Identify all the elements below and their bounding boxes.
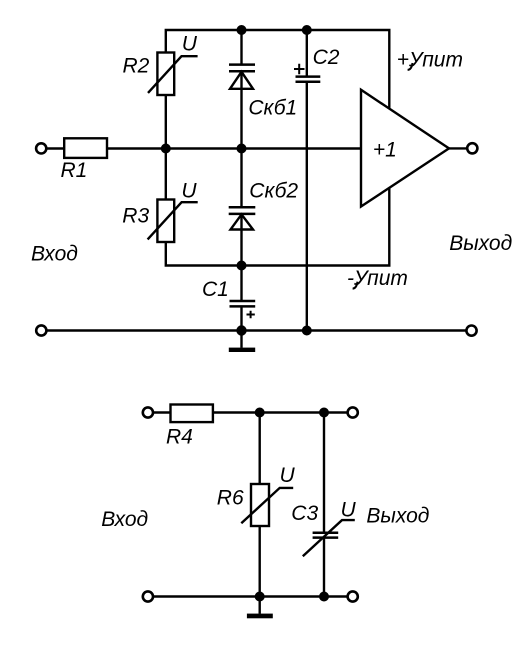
varistor R3 bbox=[148, 200, 198, 243]
svg-text:Вход: Вход bbox=[31, 243, 78, 266]
wire C1 lower segment to bottom rail bbox=[240, 306, 242, 330]
wire op-amp output bbox=[449, 147, 468, 149]
svg-text:Выход: Выход bbox=[366, 504, 429, 527]
wire R6 column bbox=[259, 413, 261, 597]
op-amp U1 buffer triangle bbox=[361, 90, 449, 207]
wire C2 column upper segment bbox=[306, 30, 308, 77]
wire C2 column lower segment to bottom rail bbox=[306, 82, 308, 331]
node junction mid rail at R2/R3 bbox=[161, 144, 171, 154]
svg-text:C3: C3 bbox=[291, 502, 318, 525]
wire C3 column lower segment bbox=[323, 538, 325, 597]
wire top rail bottom circuit bbox=[153, 411, 348, 413]
terminal bottom-right bottom circuit bbox=[348, 591, 358, 601]
node junction bottom rail at C3 bbox=[319, 592, 329, 602]
node junction top rail at C3 bbox=[319, 408, 329, 418]
node junction top rail at Скб1 bbox=[237, 25, 247, 35]
svg-text:U: U bbox=[341, 498, 357, 521]
ground symbol bottom circuit bbox=[247, 597, 273, 619]
varistor R2 bbox=[148, 53, 198, 96]
capacitor C2 bbox=[294, 64, 320, 82]
varicap Скб2 bbox=[229, 207, 256, 229]
svg-text:+Упит: +Упит bbox=[397, 48, 463, 71]
node junction bottom rail at R6/ground bbox=[255, 592, 265, 602]
svg-text:+1: +1 bbox=[373, 139, 397, 162]
svg-text:C2: C2 bbox=[313, 46, 340, 69]
wire Скб2 column upper segment bbox=[240, 149, 242, 208]
svg-text:R4: R4 bbox=[166, 426, 193, 449]
node junction bottom rail at C1/ground bbox=[236, 325, 246, 335]
varistor R6 bbox=[241, 484, 293, 526]
terminal output top-right bottom circuit bbox=[348, 407, 358, 417]
svg-text:U: U bbox=[182, 33, 198, 56]
wire C1 upper segment from -supply rail bbox=[240, 266, 242, 302]
resistor R4 bbox=[171, 405, 213, 423]
svg-text:Вход: Вход bbox=[101, 508, 148, 531]
svg-text:Скб2: Скб2 bbox=[249, 180, 298, 203]
svg-text:R3: R3 bbox=[122, 205, 149, 228]
wire Скб2 column lower segment to -supply rail bbox=[240, 214, 242, 266]
ground symbol top circuit bbox=[229, 331, 255, 353]
node junction -supply rail at Скб2/C1 bbox=[237, 261, 247, 271]
svg-text:U: U bbox=[181, 180, 197, 203]
wire bottom common rail bbox=[46, 329, 467, 331]
wire Скб1 column lower segment through diode to mid rail bbox=[240, 71, 242, 148]
node junction top rail at C2 bbox=[302, 25, 312, 35]
resistor R1 bbox=[64, 138, 107, 158]
wire bottom rail bottom circuit bbox=[153, 595, 348, 597]
svg-text:U: U bbox=[280, 464, 296, 487]
svg-text:R1: R1 bbox=[61, 159, 88, 182]
node junction bottom rail at C2 bbox=[302, 326, 312, 336]
svg-text:R2: R2 bbox=[123, 54, 150, 77]
svg-text:C1: C1 bbox=[202, 278, 229, 301]
svg-text:R6: R6 bbox=[217, 486, 244, 509]
svg-text:Выход: Выход bbox=[449, 232, 512, 255]
variable capacitor C3 bbox=[303, 520, 355, 556]
varicap Скб1 bbox=[229, 65, 255, 89]
terminal input top-left bottom circuit bbox=[143, 407, 153, 417]
wire top supply rail with R2 column drop and +supply drop to op-amp bbox=[166, 30, 389, 149]
wire input rail from input terminal to op-amp bbox=[46, 147, 365, 149]
terminal output op-amp bbox=[467, 143, 477, 153]
capacitor C1 bbox=[230, 301, 256, 318]
node junction mid rail at Скб bbox=[237, 144, 247, 154]
terminal bottom left bbox=[36, 325, 46, 335]
wire C3 column upper segment bbox=[323, 413, 325, 533]
terminal input top bbox=[36, 143, 46, 153]
wire Скб1 column upper segment bbox=[240, 30, 242, 65]
terminal bottom-left bottom circuit bbox=[143, 591, 153, 601]
terminal bottom right bbox=[466, 326, 476, 336]
node junction top rail at R6 bbox=[255, 408, 265, 418]
svg-text:Скб1: Скб1 bbox=[248, 97, 297, 120]
wire R3 column, -supply rail and riser to op-amp bottom bbox=[166, 149, 389, 266]
